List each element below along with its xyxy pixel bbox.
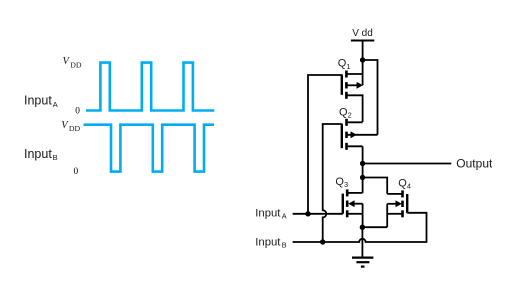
node input A / Q1 gate junction dot [305, 211, 310, 216]
svg-text:1: 1 [346, 62, 350, 71]
svg-text:B: B [282, 241, 287, 250]
svg-text:V dd: V dd [352, 28, 373, 39]
transistor Q2 channel [345, 119, 348, 126]
wire Vdd bar to Q1 drain/bulk [362, 41, 364, 86]
transistor Q1 drain stub [346, 73, 362, 75]
V dd power rail bar [351, 40, 374, 42]
svg-text:0: 0 [74, 167, 79, 177]
svg-text:Input: Input [24, 94, 52, 108]
transistor Q2 bulk arrow [351, 131, 357, 138]
wire input B line (hops over ground wire) [293, 213, 427, 242]
wire Q4 bulk/source down [386, 204, 388, 227]
transistor Q4 gate bar [406, 194, 408, 213]
transistor Q3 bulk arrow [348, 200, 354, 207]
svg-text:2: 2 [348, 111, 352, 120]
svg-text:B: B [53, 153, 58, 162]
wire output line [363, 163, 452, 165]
transistor Q3 channel [346, 189, 349, 196]
transistor Q3 bulk stub [353, 203, 363, 205]
svg-text:0: 0 [75, 107, 80, 117]
svg-text:DD: DD [70, 61, 82, 70]
transistor Q3 gate bar [342, 194, 344, 214]
transistor Q2 drain stub [347, 121, 363, 123]
wire Q2 source down to Q3 drain [362, 146, 364, 193]
wire Q3 bulk/source to ground node [362, 204, 364, 228]
transistor Q3 source stub [347, 213, 362, 215]
node output junction dot [360, 161, 365, 166]
node Q3/Q4 drain split dot [360, 175, 365, 180]
transistor Q2 source stub [347, 145, 363, 147]
wire Q2 gate to input B rail (hops over input A) [323, 124, 342, 242]
transistor Q1 bulk arrow [357, 82, 363, 89]
transistor Q3 drain stub [347, 192, 362, 194]
node ground junction dot [360, 225, 365, 230]
node input B / Q2 gate junction dot [320, 239, 325, 244]
svg-text:Output: Output [456, 156, 493, 170]
wire input A line [293, 213, 343, 215]
ground symbol [352, 257, 373, 259]
wire ground stem [361, 227, 363, 257]
svg-text:A: A [282, 212, 287, 221]
transistor Q2 gate bar [341, 124, 343, 149]
transistor Q1 source stub [346, 95, 362, 122]
wire Q1 gate to input A rail [308, 75, 342, 214]
transistor Q2 bulk stub [347, 134, 378, 136]
svg-text:Input: Input [255, 208, 281, 220]
transistor Q4 channel [401, 190, 404, 197]
transistor Q4 bulk stub [387, 203, 396, 205]
transistor Q4 source stub [387, 213, 402, 215]
node Vdd junction dot [360, 57, 365, 62]
wire to Q4 drain [363, 178, 388, 194]
svg-text:Input: Input [255, 237, 281, 249]
transistor Q1 bulk stub [346, 84, 357, 86]
svg-text:DD: DD [69, 124, 81, 133]
waveform trace input B [84, 125, 215, 172]
svg-text:4: 4 [407, 182, 411, 191]
transistor Q1 gate bar [341, 74, 343, 94]
transistor Q1 channel [345, 71, 348, 78]
wire Vdd right branch to Q2 bulk [363, 60, 378, 135]
svg-text:3: 3 [344, 180, 348, 189]
waveform trace input A [86, 63, 214, 111]
svg-text:Input: Input [24, 147, 52, 161]
transistor Q4 drain stub [387, 193, 402, 195]
wire Q4 source to ground node [362, 226, 387, 228]
transistor Q4 bulk arrow [396, 200, 402, 207]
